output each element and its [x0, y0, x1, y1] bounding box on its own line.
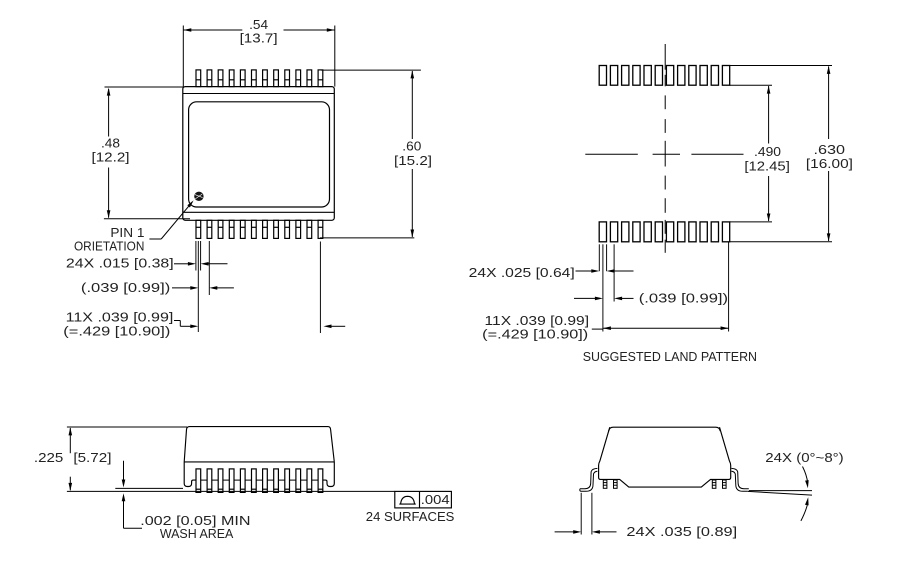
- seating plane line: [67, 490, 395, 492]
- wash area line: [115, 487, 183, 489]
- svg-text:(=.429 [10.90]): (=.429 [10.90]): [482, 327, 588, 342]
- dimension .60 [15.2] overall height: [320, 70, 432, 238]
- svg-text:[12.45]: [12.45]: [744, 158, 790, 173]
- dimension 24X .015 [0.38] pin width: [66, 256, 228, 271]
- svg-text:SUGGESTED LAND PATTERN: SUGGESTED LAND PATTERN: [583, 349, 757, 364]
- svg-text:24X .035 [0.89]: 24X .035 [0.89]: [626, 524, 737, 539]
- horizontal centerline: [585, 153, 743, 155]
- mold bottom edge between pins (side view): [201, 479, 318, 481]
- svg-text:(=.429 [10.90]): (=.429 [10.90]): [63, 323, 170, 338]
- svg-text:(.039 [0.99]): (.039 [0.99]): [639, 291, 728, 306]
- svg-text:[15.2]: [15.2]: [394, 153, 432, 168]
- pad 1 edge/center extension lines: [599, 242, 728, 332]
- dimension 11X .039 [0.99] (=.429 [10.90]) pin span: [63, 309, 345, 338]
- svg-text:.48: .48: [101, 135, 120, 150]
- svg-text:[5.72]: [5.72]: [73, 450, 111, 465]
- top pin row (top view): [196, 70, 323, 87]
- right gull-wing lead (end view): [731, 468, 748, 491]
- land pattern top pad row: [599, 66, 730, 86]
- svg-text:24X .025 [0.64]: 24X .025 [0.64]: [469, 265, 575, 280]
- dimension 11X .039 [0.99] (=.429 [10.90]) pad span: [482, 313, 728, 341]
- dimension 24X .035 [0.89] lead foot: [555, 493, 738, 539]
- land pattern bottom pad row: [599, 222, 730, 242]
- package body (end view): [599, 427, 731, 487]
- svg-text:.60: .60: [402, 138, 421, 153]
- svg-text:[13.7]: [13.7]: [240, 31, 278, 46]
- vertical centerline: [664, 44, 666, 253]
- svg-text:WASH AREA: WASH AREA: [160, 526, 234, 541]
- svg-text:24 SURFACES: 24 SURFACES: [366, 509, 455, 524]
- svg-text:.225: .225: [34, 450, 63, 465]
- pin 1 leader and label: [74, 200, 194, 253]
- package body (top view): [183, 87, 334, 221]
- svg-text:24X (0°~8°): 24X (0°~8°): [765, 450, 843, 465]
- dimension .225 [5.72] body height (side view): [34, 427, 187, 491]
- angle dimension 24X (0~8 deg): [765, 450, 843, 521]
- svg-text:[12.2]: [12.2]: [92, 150, 130, 165]
- caption SUGGESTED LAND PATTERN: [583, 349, 757, 364]
- dimension .48 [12.2] body height: [92, 87, 191, 219]
- svg-text:.004: .004: [421, 492, 450, 507]
- flatness feature control frame .004: [395, 491, 452, 508]
- left gull-wing lead (end view): [580, 468, 598, 491]
- pin 1 orientation dot: [194, 192, 203, 201]
- svg-text:11X .039 [0.99]: 11X .039 [0.99]: [66, 309, 174, 324]
- dimension .490 [12.45] pad inner span: [730, 85, 790, 222]
- pin row (side view): [196, 469, 323, 493]
- flatness value text: [421, 492, 450, 507]
- caption 24 SURFACES: [366, 509, 455, 524]
- bottom pin row (top view): [196, 220, 323, 238]
- pin 1 edge/center extension lines: [196, 241, 321, 333]
- pin stubs (end view): [603, 480, 726, 488]
- svg-text:ORIETATION: ORIETATION: [74, 239, 144, 254]
- svg-text:.490: .490: [754, 144, 781, 159]
- dimension .630 [16.00] pad outer span: [730, 66, 853, 242]
- svg-text:24X .015 [0.38]: 24X .015 [0.38]: [66, 256, 174, 271]
- svg-text:(.039 [0.99]): (.039 [0.99]): [81, 280, 170, 295]
- leader .002 [0.05] MIN WASH AREA: [122, 461, 251, 542]
- package body (side view): [184, 427, 334, 487]
- dimension (.039 [0.99]) pad pitch: [574, 291, 728, 306]
- dimension (.039 [0.99]) pin pitch: [81, 280, 234, 295]
- dimension .54 [13.7] top width: [183, 17, 334, 87]
- svg-text:[16.00]: [16.00]: [806, 156, 853, 171]
- lead angle reference lines 0-8 deg: [748, 491, 812, 496]
- dimension 24X .025 [0.64] pad width: [469, 265, 634, 280]
